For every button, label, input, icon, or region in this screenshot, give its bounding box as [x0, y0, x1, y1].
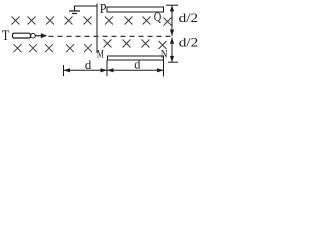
label d/2 lower [179, 36, 199, 50]
velocity arrow [36, 33, 48, 38]
label d left [85, 58, 92, 72]
svg-text:Q: Q [154, 10, 162, 24]
svg-text:T: T [2, 28, 10, 44]
ground [69, 6, 80, 14]
svg-text:d/2: d/2 [179, 10, 199, 25]
label M [97, 47, 104, 61]
label d/2 upper [179, 10, 199, 25]
trajectory dashed line [49, 35, 173, 37]
field crosses row 2 right [104, 40, 167, 50]
svg-text:P: P [100, 1, 107, 16]
label Q [154, 10, 162, 24]
right dimension line d/2 lower [168, 38, 178, 63]
svg-text:N: N [161, 48, 168, 60]
right dimension line d/2 upper [166, 5, 178, 36]
bullet body [13, 33, 31, 38]
label d right [134, 58, 140, 72]
bottom dimension d right segment [107, 60, 164, 77]
svg-text:d: d [134, 58, 140, 72]
field crosses row 1 right [105, 17, 172, 26]
plate PQ (top capacitor plate) [107, 7, 164, 12]
label P [100, 1, 107, 16]
plate MN (bottom capacitor plate) [108, 56, 164, 60]
wire [75, 4, 98, 54]
bottom dimension d left segment [64, 65, 108, 76]
field crosses row 2 left [14, 44, 93, 52]
svg-text:d: d [85, 58, 92, 72]
field crosses row 1 left [12, 17, 92, 25]
label N [161, 48, 168, 60]
bullet nose circle [31, 33, 36, 38]
svg-text:M: M [97, 47, 104, 61]
svg-text:d/2: d/2 [179, 36, 199, 50]
label T [2, 28, 10, 44]
